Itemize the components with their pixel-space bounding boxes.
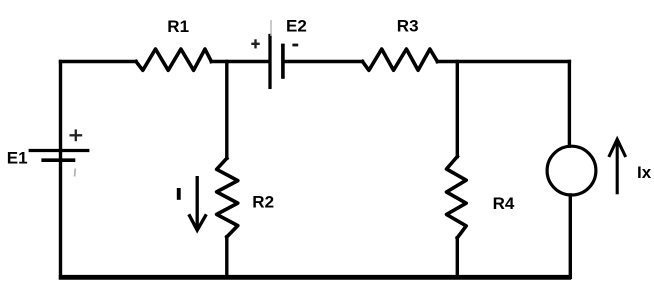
svg-text:R4: R4: [493, 194, 515, 213]
svg-text:R2: R2: [252, 192, 274, 211]
svg-text:Ix: Ix: [637, 163, 652, 182]
svg-text:R1: R1: [167, 17, 189, 36]
svg-text:E2: E2: [286, 17, 307, 36]
svg-text:R3: R3: [397, 17, 419, 36]
svg-text:E1: E1: [7, 148, 28, 167]
